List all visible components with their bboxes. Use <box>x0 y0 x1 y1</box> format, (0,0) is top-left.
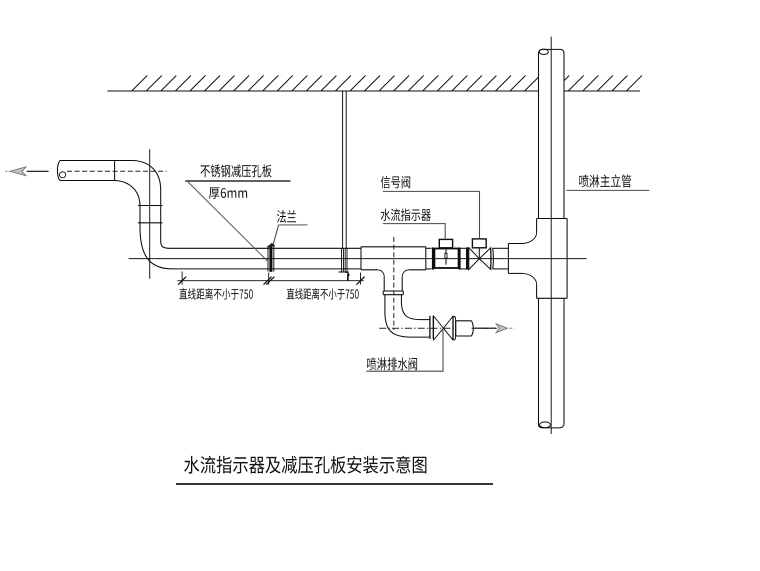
riser tee body <box>537 219 568 299</box>
flow indicator head box <box>439 239 452 247</box>
riser pipe left edge <box>538 52 540 219</box>
dimension tick left <box>178 277 186 285</box>
drain nipple <box>456 321 472 336</box>
orifice plate left flange line <box>267 246 269 272</box>
label 喷淋主立管 <box>579 175 631 188</box>
inlet pipe break ellipse <box>60 172 66 178</box>
signal valve right flange <box>489 248 492 269</box>
main pipe top edge <box>170 247 362 249</box>
leader arrowhead 法兰 <box>267 243 275 247</box>
title 水流指示器及减压孔板安装示意图 <box>184 456 426 474</box>
drain valve body <box>434 316 444 340</box>
main pipe centerline through tee <box>361 258 426 260</box>
drain flow arrow <box>496 324 507 333</box>
flow indicator paddle <box>445 250 447 265</box>
drain outlet line <box>475 327 497 329</box>
leader 信号阀 <box>383 191 480 239</box>
ceiling hatching <box>132 76 642 92</box>
drain tee body <box>361 247 426 270</box>
drain valve right disc <box>453 316 455 339</box>
hanger rod <box>342 91 344 248</box>
dimension text left: 直线距离不小于750 <box>179 288 253 300</box>
main pipe centerline through indicator <box>434 258 458 260</box>
lower elbow <box>140 227 172 269</box>
elbow riser pipe edges <box>139 206 141 227</box>
title underline <box>176 483 493 485</box>
label 水流指示器 <box>381 209 431 222</box>
dimension ticks mid <box>264 277 272 285</box>
inlet arrow tail line <box>27 170 49 172</box>
leader 喷淋排水阀 <box>366 330 443 372</box>
elbow vertical centerline <box>149 149 151 278</box>
hanger clamp <box>339 271 349 273</box>
upper elbow <box>132 161 160 191</box>
hanger clamp bolts <box>341 248 343 271</box>
label 喷淋排水阀 <box>367 357 417 370</box>
drain tee fillets <box>378 270 385 277</box>
elbow pipe coupling <box>138 205 163 207</box>
drain branch coupling <box>383 290 403 292</box>
dimension ext line mid <box>268 273 270 285</box>
signal valve body <box>469 248 480 270</box>
main pipe bottom edge <box>172 268 361 270</box>
orifice plate <box>269 245 272 272</box>
riser top break ellipse <box>539 49 548 54</box>
label 法兰 <box>277 210 296 223</box>
riser pipe body fill <box>539 49 565 424</box>
riser top rim <box>539 49 565 53</box>
dimension line <box>177 280 363 282</box>
drain elbow <box>385 312 411 337</box>
label 信号阀 <box>381 176 411 189</box>
riser bottom cap <box>539 425 565 428</box>
dimension tick right <box>357 277 365 285</box>
inlet flow arrow <box>10 167 26 176</box>
label 不锈钢减压孔板 <box>201 164 272 177</box>
signal valve left flange <box>466 247 468 269</box>
main pipe centerline <box>129 258 587 260</box>
riser tee socket <box>508 244 536 274</box>
dimension ext line right <box>360 273 362 285</box>
riser centerline through tee <box>550 219 552 299</box>
signal valve head box <box>472 239 486 248</box>
dimension ext line left <box>181 272 183 285</box>
drain branch centerline <box>393 237 395 330</box>
drain pipe edges <box>420 319 430 321</box>
leader to orifice plate <box>188 182 269 262</box>
label underline 法兰 <box>279 224 308 226</box>
inlet pipe body <box>60 161 115 181</box>
inlet pipe joint <box>114 161 116 181</box>
flow indicator left collar <box>432 247 434 269</box>
label underline 不锈钢减压孔板 <box>185 180 290 182</box>
drain centerline <box>379 327 497 329</box>
leader 水流指示器 <box>383 224 445 240</box>
riser centerline <box>550 37 552 434</box>
ceiling line <box>107 90 640 92</box>
label underline 喷淋主立管 <box>566 189 649 191</box>
flow indicator body <box>434 249 458 269</box>
dimension text right: 直线距离不小于750 <box>287 288 359 300</box>
drain valve left flange <box>429 316 431 339</box>
orifice plate right flange line <box>273 246 275 272</box>
riser pipe right edge <box>563 52 565 219</box>
riser tee fillets <box>522 233 537 244</box>
leader 法兰 <box>273 225 278 245</box>
drain branch pipe <box>383 277 385 292</box>
label 厚6mm <box>209 187 247 198</box>
drain branch pipe lower <box>384 295 386 312</box>
signal valve stem <box>478 248 480 259</box>
flow indicator right collar <box>459 247 461 269</box>
inlet pipe centerline <box>67 170 167 172</box>
